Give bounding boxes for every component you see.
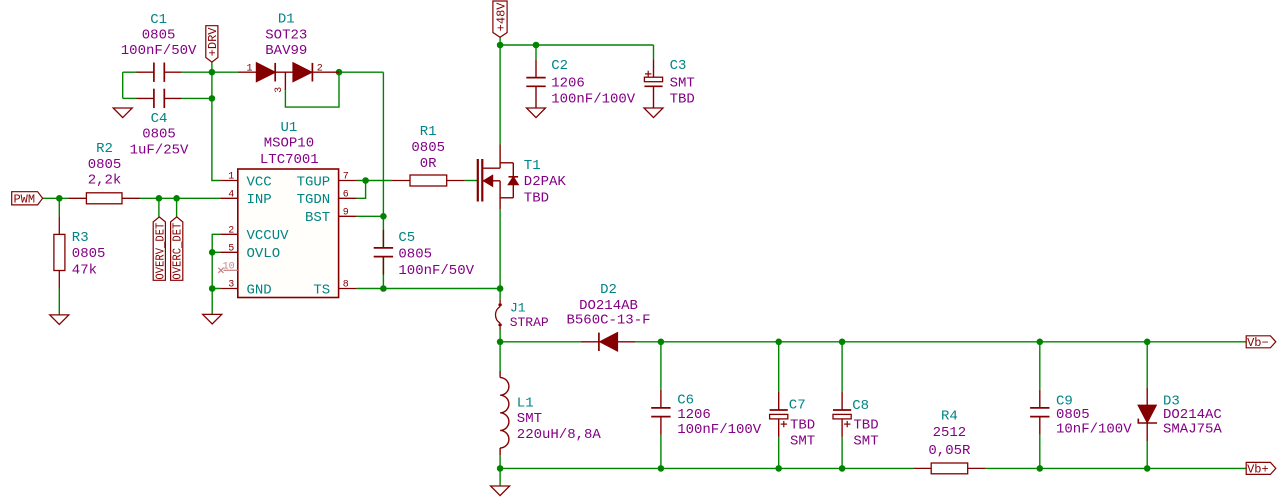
- wire L1 ground stub: [499, 468, 501, 486]
- U1 pin 8 stub: [339, 288, 357, 290]
- svg-text:0805: 0805: [142, 28, 176, 44]
- svg-text:8: 8: [343, 280, 349, 291]
- wire T1 source down to TS node: [499, 209, 501, 289]
- wire C2 top lead: [535, 45, 537, 60]
- svg-text:INP: INP: [247, 192, 272, 208]
- C4 reference and values: [130, 111, 189, 158]
- svg-text:1206: 1206: [551, 75, 585, 91]
- svg-text:D2: D2: [600, 282, 617, 298]
- wire D3 top lead: [1146, 342, 1148, 388]
- node TS/source junction: [497, 285, 504, 292]
- wire +DRV node to U1 VCC pin: [212, 98, 221, 180]
- capacitor C2: [526, 60, 545, 108]
- U1 pin 2 stub: [220, 233, 237, 235]
- wire C6 top lead: [660, 342, 662, 390]
- svg-text:TBD: TBD: [853, 417, 878, 433]
- wire Vb- node down to L1: [499, 342, 501, 371]
- svg-text:OVERV_DET: OVERV_DET: [154, 223, 167, 280]
- wire +48V label drop: [499, 37, 501, 144]
- svg-text:TS: TS: [313, 282, 330, 298]
- svg-text:Vb+: Vb+: [1247, 463, 1269, 477]
- wire C8 top lead: [841, 342, 843, 392]
- wire +DRV vertical drop: [211, 62, 213, 98]
- svg-text:3: 3: [274, 87, 285, 93]
- node C7 bottom junction: [775, 465, 782, 472]
- svg-text:10nF/100V: 10nF/100V: [1056, 421, 1132, 437]
- diode D1 (BAV99 dual): [239, 63, 340, 90]
- svg-text:BST: BST: [305, 210, 330, 226]
- wire Vb+ rail left: [500, 467, 913, 469]
- node C6 top junction: [658, 339, 665, 346]
- svg-text:TGDN: TGDN: [297, 192, 331, 208]
- wire OVERC_DET stub: [176, 198, 178, 217]
- wire D3 bottom lead: [1146, 441, 1148, 468]
- node L1 bottom junction: [497, 465, 504, 472]
- svg-text:VCC: VCC: [247, 174, 272, 190]
- svg-text:47k: 47k: [72, 263, 97, 279]
- power label +48V: [493, 1, 508, 37]
- ground under U1: [203, 314, 222, 324]
- resistor R1: [392, 175, 465, 186]
- capacitor C5: [374, 230, 393, 275]
- svg-text:0805: 0805: [72, 246, 106, 262]
- svg-text:VCCUV: VCCUV: [247, 228, 290, 244]
- svg-text:2: 2: [228, 226, 234, 237]
- svg-text:+48V: +48V: [494, 2, 508, 32]
- svg-text:100nF/100V: 100nF/100V: [677, 422, 762, 438]
- wire U1 GND stub: [211, 289, 213, 315]
- U1 pin numbers right: [343, 172, 349, 291]
- node C5/TS junction: [380, 285, 387, 292]
- svg-text:GND: GND: [247, 282, 272, 298]
- node C9 top junction: [1037, 339, 1044, 346]
- wire C3 top lead: [653, 45, 655, 59]
- svg-text:L1: L1: [517, 396, 534, 412]
- svg-text:BAV99: BAV99: [265, 43, 307, 59]
- ground under C2: [527, 108, 546, 118]
- resistor R3: [54, 216, 65, 288]
- svg-text:1: 1: [228, 172, 234, 183]
- wire +48V rail: [500, 44, 653, 46]
- IC U1 LTC7001 body: [238, 169, 339, 298]
- capacitor C1: [137, 63, 182, 82]
- svg-text:2: 2: [317, 63, 323, 74]
- svg-text:SMT: SMT: [790, 433, 815, 449]
- wire C5 bottom to TS row: [382, 257, 384, 289]
- C3 reference and values: [670, 58, 695, 107]
- svg-text:MSOP10: MSOP10: [264, 136, 314, 152]
- U1 pin 6 stub: [339, 197, 357, 199]
- C8 reference and values: [852, 398, 878, 450]
- D3 reference and values: [1163, 394, 1222, 438]
- svg-text:0805: 0805: [88, 157, 122, 173]
- C5 reference and values: [398, 230, 474, 279]
- svg-text:TGUP: TGUP: [297, 174, 331, 190]
- node D3 bottom junction: [1144, 465, 1151, 472]
- wire Vb- node to D2: [500, 341, 581, 343]
- C1 reference and values: [121, 12, 197, 59]
- R1 reference and values: [411, 124, 445, 172]
- svg-text:1: 1: [246, 63, 252, 74]
- svg-text:6: 6: [343, 190, 349, 201]
- node +48V junction: [497, 42, 504, 49]
- R4 reference and values: [928, 408, 971, 459]
- wire R2 out to U1 INP: [140, 197, 220, 199]
- svg-text:SMT: SMT: [517, 411, 542, 427]
- svg-text:+DRV: +DRV: [206, 27, 220, 57]
- svg-text:2,2k: 2,2k: [88, 173, 122, 189]
- node C4 right junction: [209, 95, 216, 102]
- U1 pin 3 stub: [220, 288, 237, 290]
- node +DRV/C1 junction: [209, 69, 216, 76]
- svg-text:STRAP: STRAP: [510, 315, 549, 330]
- global label Vb+: [1246, 462, 1276, 476]
- global label OVERC_DET: [171, 217, 185, 280]
- power label +DRV: [206, 26, 220, 62]
- svg-text:C8: C8: [852, 398, 869, 414]
- svg-text:100nF/100V: 100nF/100V: [551, 92, 636, 108]
- ground under L1: [491, 486, 510, 496]
- svg-text:4: 4: [228, 190, 234, 201]
- svg-text:C1: C1: [150, 12, 167, 28]
- U1 pin 4 stub: [220, 197, 237, 199]
- wire D1 pin3 loop: [285, 72, 339, 107]
- svg-text:TBD: TBD: [670, 92, 695, 108]
- svg-text:U1: U1: [280, 120, 297, 136]
- wire C1 top left: [123, 71, 137, 73]
- svg-text:0805: 0805: [398, 247, 432, 263]
- ground under C4 left: [113, 108, 132, 118]
- transistor T1 (NMOS with body diode): [478, 145, 518, 210]
- svg-text:OVLO: OVLO: [247, 246, 281, 262]
- svg-text:0R: 0R: [420, 156, 437, 172]
- node C6 bottom junction: [658, 465, 665, 472]
- capacitor C4: [137, 89, 182, 108]
- capacitor C7 (polarized): [770, 392, 788, 437]
- wire R3 bottom to ground: [58, 289, 60, 315]
- svg-text:R1: R1: [420, 124, 437, 140]
- wire C7 top lead: [778, 342, 780, 392]
- inductor L1: [500, 371, 509, 455]
- ground under C3: [644, 108, 663, 118]
- wire C6 bottom lead: [660, 435, 662, 469]
- svg-text:10: 10: [223, 262, 235, 273]
- svg-text:B560C-13-F: B560C-13-F: [566, 313, 650, 329]
- node C2 top junction: [533, 42, 540, 49]
- wire left drop C1 to C4: [122, 72, 124, 98]
- capacitor C8 (polarized): [833, 392, 851, 437]
- wire R3 top: [58, 198, 60, 216]
- U1 pin 5 stub: [220, 251, 237, 253]
- wire C1 right to +DRV node: [182, 71, 212, 73]
- svg-text:R2: R2: [96, 141, 113, 157]
- svg-text:SMT: SMT: [853, 433, 878, 449]
- C2 reference and values: [551, 58, 636, 107]
- capacitor C6: [651, 390, 670, 435]
- U1 pin 9 stub: [339, 215, 357, 217]
- wire BST vertical drop to C5: [382, 72, 384, 248]
- wire BST link: [357, 215, 384, 217]
- diode D2: [581, 333, 636, 351]
- global label Vb-: [1246, 336, 1276, 350]
- D1 reference and values: [265, 12, 307, 59]
- jumper J1: [496, 300, 502, 330]
- D2 reference and values: [566, 282, 650, 329]
- svg-text:0805: 0805: [411, 140, 445, 156]
- wire TGUP to R1: [357, 180, 392, 182]
- U1 reference and values: [260, 120, 319, 168]
- svg-text:PWM: PWM: [13, 193, 35, 207]
- R2 reference and values: [88, 141, 122, 189]
- node C9 bottom junction: [1037, 465, 1044, 472]
- node TGUP junction: [362, 177, 369, 184]
- svg-text:C2: C2: [551, 58, 568, 74]
- svg-text:7: 7: [343, 172, 349, 183]
- resistor R2: [68, 193, 140, 204]
- svg-text:100nF/50V: 100nF/50V: [121, 43, 197, 59]
- svg-text:SOT23: SOT23: [265, 28, 307, 44]
- svg-text:C4: C4: [151, 111, 168, 127]
- node C7 top junction: [775, 339, 782, 346]
- wire TS node to J1: [499, 289, 501, 301]
- wire C8 bottom lead: [841, 437, 843, 469]
- wire C9 top lead: [1039, 342, 1041, 390]
- svg-text:1uF/25V: 1uF/25V: [130, 142, 189, 158]
- wire C7 bottom lead: [778, 437, 780, 469]
- wire R1 to T1 gate: [465, 180, 477, 182]
- node OVERC_DET junction: [173, 195, 180, 202]
- svg-text:TBD: TBD: [524, 190, 549, 206]
- U1 pin names: [247, 174, 331, 298]
- node C8 top junction: [839, 339, 846, 346]
- C6 reference and values: [677, 393, 762, 438]
- U1 pin numbers left: [223, 172, 235, 291]
- J1 reference and value: [510, 301, 549, 331]
- svg-text:OVERC_DET: OVERC_DET: [172, 223, 185, 280]
- svg-text:R4: R4: [941, 408, 958, 424]
- C9 reference and values: [1056, 394, 1132, 438]
- resistor R4: [913, 463, 986, 474]
- wire C4 right to +DRV drop: [182, 97, 212, 99]
- wire D1 node A to D1 pin1: [212, 71, 239, 73]
- svg-text:100nF/50V: 100nF/50V: [398, 263, 474, 279]
- svg-text:D1: D1: [278, 12, 295, 28]
- svg-text:0,05R: 0,05R: [928, 443, 971, 459]
- svg-text:LTC7001: LTC7001: [260, 152, 319, 168]
- wire D1 out to BST drop: [339, 71, 383, 73]
- svg-text:C3: C3: [670, 58, 687, 74]
- svg-text:D2PAK: D2PAK: [524, 174, 567, 190]
- capacitor C3 (polarized): [644, 59, 662, 108]
- node switch/Vb- junction: [497, 339, 504, 346]
- ground under R3: [50, 315, 69, 325]
- svg-text:C5: C5: [398, 230, 415, 246]
- svg-text:220uH/8,8A: 220uH/8,8A: [517, 427, 602, 443]
- L1 reference and values: [517, 396, 602, 444]
- svg-text:TBD: TBD: [790, 417, 815, 433]
- node OVLO junction: [209, 249, 216, 256]
- svg-text:SMAJ75A: SMAJ75A: [1163, 421, 1222, 437]
- node GND pin junction: [209, 285, 216, 292]
- svg-text:J1: J1: [510, 301, 526, 316]
- wire U1 left pins bus: [212, 234, 220, 288]
- global label OVERV_DET: [153, 217, 167, 280]
- wire C4 left: [123, 97, 137, 99]
- R3 reference and values: [72, 230, 106, 279]
- wire OVERV_DET stub: [158, 198, 160, 217]
- node PWM/R3 junction: [56, 195, 63, 202]
- diode D3 (TVS): [1138, 387, 1157, 441]
- svg-text:0805: 0805: [142, 127, 176, 143]
- svg-text:C7: C7: [789, 398, 806, 414]
- node D3 top junction: [1144, 339, 1151, 346]
- wire D2 out Vb- rail: [635, 341, 1246, 343]
- node OVERV_DET junction: [156, 195, 163, 202]
- wire Vb+ rail right: [986, 467, 1246, 469]
- svg-text:SMT: SMT: [670, 75, 695, 91]
- wire PWM input: [43, 197, 69, 199]
- svg-text:9: 9: [343, 208, 349, 219]
- wire L1 bottom: [499, 455, 501, 468]
- node C8 bottom junction: [839, 465, 846, 472]
- svg-text:3: 3: [228, 280, 234, 291]
- capacitor C9: [1030, 390, 1049, 435]
- wire OVLO link: [212, 251, 220, 253]
- U1 pin 7 stub: [339, 180, 357, 182]
- global label PWM: [12, 192, 43, 207]
- node BST junction: [380, 213, 387, 220]
- T1 reference and values: [524, 158, 567, 206]
- svg-text:R3: R3: [72, 230, 89, 246]
- U1 pin 1 stub: [220, 180, 237, 182]
- svg-text:Vb−: Vb−: [1247, 336, 1269, 350]
- wire TGDN up link: [357, 181, 366, 199]
- wire TS row to T1 source column: [357, 288, 501, 290]
- wire J1 to Vb- node: [499, 330, 501, 342]
- node D1 out junction: [336, 69, 343, 76]
- svg-text:5: 5: [228, 244, 234, 255]
- wire C9 bottom lead: [1039, 435, 1041, 469]
- U1 pin 10 stub (no connect): [218, 268, 238, 273]
- svg-text:2512: 2512: [933, 425, 967, 441]
- svg-text:1206: 1206: [677, 407, 711, 423]
- C7 reference and values: [789, 398, 815, 450]
- svg-text:T1: T1: [524, 158, 541, 174]
